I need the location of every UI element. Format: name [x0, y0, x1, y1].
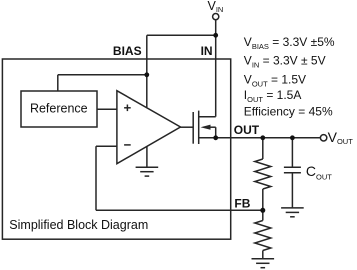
wire minus input: [96, 145, 117, 147]
wire BIAS vertical into box: [146, 35, 148, 75]
svg-text:IOUT = 1.5A: IOUT = 1.5A: [244, 88, 302, 104]
svg-text:OUT: OUT: [234, 123, 260, 137]
svg-text:VBIAS = 3.3V ±5%: VBIAS = 3.3V ±5%: [244, 35, 335, 51]
junction dot source/OUT: [213, 135, 218, 140]
svg-text:VIN: VIN: [208, 0, 224, 14]
wire V_IN terminal to junction: [215, 20, 217, 36]
junction dot R1 top: [260, 135, 265, 140]
outer block box: [2, 59, 230, 239]
junction dot cap top: [290, 135, 295, 140]
svg-text:COUT: COUT: [306, 163, 332, 181]
ground C_OUT: [281, 208, 304, 217]
wire IN vertical to mosfet drain: [215, 35, 217, 116]
terminal VIN circle: [213, 14, 219, 20]
ground R2: [252, 259, 275, 268]
wire junction to BIAS corner: [147, 34, 216, 36]
svg-text:Efficiency = 45%: Efficiency = 45%: [244, 105, 333, 119]
transistor Q1 pass FET: [193, 111, 216, 144]
svg-text:VOUT = 1.5V: VOUT = 1.5V: [244, 73, 306, 89]
wire bias to op-amp top: [146, 75, 148, 108]
resistor R1: [255, 138, 271, 211]
capacitor C_OUT: [284, 138, 301, 208]
op-amp U1: [117, 91, 181, 164]
resistor R2: [255, 210, 271, 258]
junction dot BIAS: [144, 72, 149, 77]
svg-text:FB: FB: [234, 196, 250, 210]
wire reference output to op-amp plus input: [97, 108, 117, 110]
op-amp plus input sign: [124, 105, 131, 112]
svg-text:Simplified Block Diagram: Simplified Block Diagram: [9, 218, 148, 232]
svg-text:Reference: Reference: [30, 101, 88, 115]
svg-text:VIN = 3.3V ± 5V: VIN = 3.3V ± 5V: [244, 54, 326, 70]
wire bias junction to reference branch: [58, 74, 147, 76]
wire feedback vertical: [95, 146, 97, 210]
reference block U2: [21, 91, 97, 127]
svg-text:VOUT: VOUT: [328, 129, 354, 146]
wire OUT line: [216, 137, 321, 139]
svg-text:IN: IN: [201, 44, 213, 58]
junction dot FB: [260, 208, 265, 213]
svg-text:BIAS: BIAS: [113, 44, 142, 58]
op-amp minus input sign: [124, 144, 131, 146]
junction dot VIN: [213, 33, 218, 38]
terminal VOUT circle: [320, 135, 326, 141]
ground op-amp: [136, 146, 159, 176]
wire op-amp output to gate: [181, 126, 194, 128]
wire FB horizontal: [96, 209, 263, 211]
wire down to reference top: [57, 75, 59, 91]
